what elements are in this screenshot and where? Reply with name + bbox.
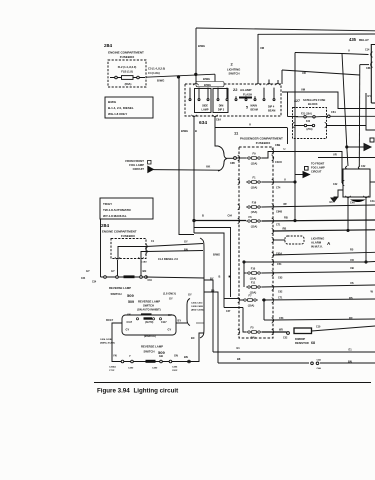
svg-text:C54: C54 bbox=[277, 263, 282, 266]
svg-text:Figure 3.94: Figure 3.94 bbox=[97, 388, 130, 395]
svg-text:CIRCUIT: CIRCUIT bbox=[311, 170, 322, 174]
svg-text:B: B bbox=[219, 275, 221, 279]
svg-text:C280: C280 bbox=[152, 367, 158, 369]
svg-text:C62: C62 bbox=[278, 291, 283, 294]
svg-text:RELAY: RELAY bbox=[359, 38, 369, 42]
svg-text:B/WG: B/WG bbox=[108, 100, 117, 104]
svg-text:BY: BY bbox=[178, 318, 182, 322]
svg-text:GY: GY bbox=[126, 328, 130, 332]
svg-text:B/WG: B/WG bbox=[198, 44, 205, 48]
svg-text:REVERSE LAMP: REVERSE LAMP bbox=[109, 286, 131, 290]
svg-text:RC: RC bbox=[349, 316, 353, 320]
svg-text:(1.8 ONLY): (1.8 ONLY) bbox=[163, 292, 176, 296]
svg-text:FUSEBOX: FUSEBOX bbox=[121, 234, 135, 238]
svg-text:C4A: C4A bbox=[317, 367, 322, 370]
svg-text:E1: E1 bbox=[349, 347, 353, 351]
svg-text:B8: B8 bbox=[237, 357, 241, 361]
svg-text:BN: BN bbox=[184, 247, 188, 251]
svg-text:(MANL.S/LNE): (MANL.S/LNE) bbox=[100, 342, 115, 345]
svg-text:GY: GY bbox=[188, 293, 192, 297]
svg-text:(15A): (15A) bbox=[251, 225, 258, 229]
svg-text:C1: C1 bbox=[151, 240, 155, 243]
svg-text:V: V bbox=[249, 122, 251, 126]
svg-text:BEAM: BEAM bbox=[251, 109, 258, 112]
svg-text:BEAM: BEAM bbox=[268, 110, 275, 113]
svg-text:TO FRONT: TO FRONT bbox=[311, 162, 325, 166]
svg-text:F5: F5 bbox=[250, 326, 254, 330]
svg-text:C41A C41Z: C41A C41Z bbox=[191, 302, 203, 305]
svg-text:C286: C286 bbox=[172, 367, 178, 369]
svg-text:B/WG: B/WG bbox=[213, 253, 220, 257]
svg-text:DIP 4: DIP 4 bbox=[268, 106, 275, 109]
svg-text:YN: YN bbox=[127, 312, 131, 316]
svg-text:GY: GY bbox=[86, 269, 90, 273]
svg-text:REVERSE LAMP: REVERSE LAMP bbox=[141, 345, 163, 349]
svg-text:C34: C34 bbox=[148, 279, 153, 282]
svg-text:C414 C41B: C414 C41B bbox=[100, 338, 112, 341]
svg-text:SATELLITE FUSE: SATELLITE FUSE bbox=[303, 98, 326, 102]
svg-text:(ON AUTO INHIBIT): (ON AUTO INHIBIT) bbox=[137, 308, 161, 312]
svg-text:C63: C63 bbox=[278, 277, 283, 280]
svg-text:W5: W5 bbox=[279, 328, 283, 332]
svg-text:B/WG: B/WG bbox=[157, 79, 164, 83]
svg-text:C71: C71 bbox=[276, 224, 281, 227]
svg-text:FOG LAMP: FOG LAMP bbox=[311, 166, 325, 170]
svg-text:CIRCUIT: CIRCUIT bbox=[133, 167, 145, 171]
svg-text:C41B C42B: C41B C42B bbox=[191, 305, 203, 308]
svg-text:DIM/DIP: DIM/DIP bbox=[295, 337, 305, 341]
svg-text:(15A): (15A) bbox=[251, 162, 258, 166]
svg-text:B9: B9 bbox=[211, 289, 215, 293]
svg-text:(15A): (15A) bbox=[251, 210, 258, 214]
svg-text:(MANUAL): (MANUAL) bbox=[144, 335, 156, 338]
svg-text:C14: C14 bbox=[365, 49, 370, 52]
svg-text:C63A: C63A bbox=[276, 253, 282, 256]
svg-text:UM: UM bbox=[260, 46, 264, 50]
svg-text:DIM: DIM bbox=[219, 105, 224, 108]
svg-text:(10A): (10A) bbox=[248, 304, 255, 308]
svg-text:E1: E1 bbox=[237, 346, 241, 350]
svg-text:FUSEBOX: FUSEBOX bbox=[256, 141, 271, 145]
svg-text:C3C8: C3C8 bbox=[275, 160, 282, 164]
svg-text:B: B bbox=[202, 214, 204, 218]
svg-text:WY-1.8 MANUAL: WY-1.8 MANUAL bbox=[103, 214, 127, 218]
svg-text:SIDE: SIDE bbox=[202, 105, 208, 108]
svg-text:B: B bbox=[195, 129, 197, 133]
svg-text:GN: GN bbox=[174, 353, 178, 357]
svg-text:435: 435 bbox=[349, 37, 357, 42]
svg-text:509: 509 bbox=[128, 300, 134, 304]
svg-text:C4A: C4A bbox=[370, 200, 375, 203]
svg-text:B/WG: B/WG bbox=[204, 83, 211, 87]
svg-text:(25A): (25A) bbox=[307, 128, 313, 131]
svg-text:C117: C117 bbox=[127, 321, 133, 324]
svg-text:UR: UR bbox=[302, 71, 306, 75]
svg-text:284: 284 bbox=[104, 43, 112, 49]
svg-text:C74: C74 bbox=[276, 187, 281, 190]
svg-text:IN M.F.U.: IN M.F.U. bbox=[311, 245, 323, 249]
svg-text:MAIN: MAIN bbox=[251, 105, 258, 108]
svg-text:BN: BN bbox=[143, 269, 147, 273]
svg-text:C280: C280 bbox=[128, 367, 134, 369]
svg-text:C42: C42 bbox=[333, 183, 338, 186]
svg-text:C8B: C8B bbox=[275, 143, 280, 147]
svg-text:TR/GY: TR/GY bbox=[103, 202, 112, 206]
svg-text:C53: C53 bbox=[279, 317, 284, 320]
svg-text:ENGINE COMPARTMENT: ENGINE COMPARTMENT bbox=[108, 51, 144, 55]
svg-text:EN: EN bbox=[191, 337, 195, 340]
svg-text:PA/GY: PA/GY bbox=[106, 319, 114, 322]
svg-text:A/LAMP: A/LAMP bbox=[240, 88, 252, 92]
svg-text:W: W bbox=[371, 290, 374, 294]
svg-text:C84B: C84B bbox=[276, 211, 282, 214]
svg-text:UM: UM bbox=[301, 88, 305, 92]
svg-text:SWITCH: SWITCH bbox=[143, 349, 154, 353]
svg-text:PASSENGER COMPARTMENT: PASSENGER COMPARTMENT bbox=[240, 137, 283, 141]
svg-text:FUSEBOX: FUSEBOX bbox=[120, 55, 135, 59]
svg-text:GY: GY bbox=[168, 328, 172, 332]
svg-text:68: 68 bbox=[311, 341, 315, 345]
svg-text:F11: F11 bbox=[251, 281, 256, 285]
svg-text:LAMP: LAMP bbox=[201, 109, 208, 112]
svg-text:(AND C41B): (AND C41B) bbox=[191, 309, 204, 312]
svg-text:427: 427 bbox=[294, 99, 300, 103]
svg-text:F22: F22 bbox=[306, 120, 311, 123]
svg-text:C52: C52 bbox=[283, 337, 288, 340]
svg-text:B/WG: B/WG bbox=[203, 77, 210, 81]
svg-text:U: U bbox=[348, 49, 350, 53]
svg-text:UR: UR bbox=[333, 153, 337, 157]
svg-text:FL2 (1.4,.8,2.0): FL2 (1.4,.8,2.0) bbox=[118, 65, 137, 69]
svg-text:SWITCH: SWITCH bbox=[143, 304, 154, 308]
svg-text:A: A bbox=[327, 241, 331, 246]
svg-text:RS: RS bbox=[349, 296, 353, 300]
svg-text:C88: C88 bbox=[366, 67, 371, 70]
svg-text:RF: RF bbox=[284, 202, 288, 206]
svg-text:C47: C47 bbox=[226, 310, 231, 313]
svg-text:US: US bbox=[350, 281, 354, 285]
svg-text:Y: Y bbox=[129, 354, 131, 358]
svg-text:GY: GY bbox=[111, 269, 115, 273]
svg-text:FLASH: FLASH bbox=[243, 92, 252, 96]
svg-text:C71Z: C71Z bbox=[109, 370, 115, 372]
svg-text:C5 (1.4,.8,2.0): C5 (1.4,.8,2.0) bbox=[148, 67, 165, 71]
svg-text:U: U bbox=[284, 147, 286, 151]
svg-text:YN: YN bbox=[113, 353, 117, 357]
svg-text:RB: RB bbox=[283, 226, 287, 230]
svg-text:284: 284 bbox=[101, 223, 109, 229]
svg-text:634: 634 bbox=[199, 120, 207, 126]
svg-text:C71: C71 bbox=[278, 297, 283, 300]
svg-text:CL4 DIESEL 2.0: CL4 DIESEL 2.0 bbox=[158, 257, 178, 261]
svg-text:2: 2 bbox=[231, 62, 234, 67]
svg-text:C61: C61 bbox=[331, 110, 336, 114]
svg-text:(10A): (10A) bbox=[251, 186, 258, 190]
svg-text:BN: BN bbox=[184, 355, 188, 359]
svg-text:C34: C34 bbox=[81, 277, 86, 280]
svg-text:GY: GY bbox=[168, 313, 172, 317]
svg-text:F21 (10A): F21 (10A) bbox=[301, 112, 312, 115]
svg-text:C4A: C4A bbox=[317, 359, 322, 362]
svg-text:GB: GB bbox=[159, 354, 163, 358]
svg-text:BLOCK: BLOCK bbox=[308, 102, 318, 106]
svg-text:U: U bbox=[284, 178, 286, 182]
svg-text:C1A8: C1A8 bbox=[141, 261, 147, 264]
svg-text:F16: F16 bbox=[252, 201, 257, 205]
svg-text:UB: UB bbox=[350, 266, 354, 270]
svg-text:EY: EY bbox=[368, 94, 372, 98]
svg-text:F9: F9 bbox=[252, 152, 256, 156]
svg-text:5: 5 bbox=[246, 106, 248, 110]
svg-text:GY: GY bbox=[184, 239, 188, 243]
svg-text:RB: RB bbox=[284, 216, 288, 220]
svg-text:(5A): (5A) bbox=[250, 336, 255, 340]
svg-text:F6: F6 bbox=[248, 215, 252, 219]
svg-text:C81Z: C81Z bbox=[172, 370, 178, 372]
svg-text:C34: C34 bbox=[92, 280, 97, 283]
svg-text:BN: BN bbox=[348, 359, 352, 363]
svg-text:SWITCH: SWITCH bbox=[110, 292, 121, 296]
svg-text:509: 509 bbox=[127, 293, 134, 298]
svg-text:E3: E3 bbox=[330, 201, 334, 204]
svg-text:F10: F10 bbox=[251, 267, 256, 271]
svg-text:C10: C10 bbox=[316, 326, 321, 329]
svg-text:C117: C117 bbox=[161, 321, 167, 324]
svg-text:SWITCH: SWITCH bbox=[229, 72, 240, 76]
svg-text:(10A): (10A) bbox=[250, 277, 257, 281]
svg-text:C42: C42 bbox=[361, 165, 366, 168]
svg-text:WG-1.8 ONLY: WG-1.8 ONLY bbox=[108, 112, 127, 116]
svg-text:TW-1.8 AUTOMATIC: TW-1.8 AUTOMATIC bbox=[103, 208, 132, 212]
svg-text:(60A): (60A) bbox=[125, 82, 132, 86]
svg-text:DIP 3: DIP 3 bbox=[218, 109, 225, 112]
svg-text:22: 22 bbox=[233, 87, 238, 92]
svg-text:C64: C64 bbox=[228, 215, 233, 218]
svg-text:(AUTO): (AUTO) bbox=[145, 321, 154, 324]
svg-text:RESISTOR: RESISTOR bbox=[295, 341, 309, 345]
svg-text:C4 (1.8A): C4 (1.8A) bbox=[148, 71, 160, 75]
svg-text:UO: UO bbox=[350, 258, 354, 262]
svg-text:C204A: C204A bbox=[109, 366, 116, 369]
svg-text:BY: BY bbox=[210, 277, 214, 281]
svg-text:C8B: C8B bbox=[230, 162, 235, 165]
svg-text:Lighting circuit: Lighting circuit bbox=[134, 388, 179, 395]
svg-text:11: 11 bbox=[234, 131, 239, 136]
svg-text:R5: R5 bbox=[350, 248, 354, 252]
svg-text:F1: F1 bbox=[252, 176, 256, 180]
svg-text:B/WG: B/WG bbox=[181, 129, 188, 133]
svg-text:C4A: C4A bbox=[350, 202, 355, 205]
svg-text:UK: UK bbox=[206, 165, 211, 169]
svg-text:FLB (1.8): FLB (1.8) bbox=[121, 70, 133, 74]
svg-text:GY: GY bbox=[169, 297, 173, 301]
svg-text:C8A: C8A bbox=[216, 119, 221, 122]
svg-text:B-1.4, 2.0, DIESEL: B-1.4, 2.0, DIESEL bbox=[108, 106, 134, 110]
